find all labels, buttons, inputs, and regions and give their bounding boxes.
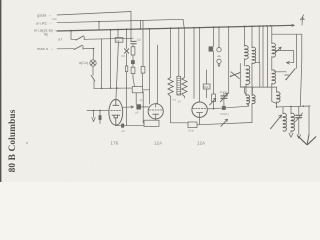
element 80 — [209, 46, 214, 51]
svg-text:12A: 12A — [197, 141, 205, 146]
capacitor C1 — [99, 115, 102, 120]
wire drop to switch1 — [70, 31, 72, 40]
svg-text:14: 14 — [178, 99, 182, 103]
scan edge line left — [0, 0, 2, 182]
tuned coil L5 variable — [282, 107, 284, 114]
resistor R11 box — [203, 84, 210, 89]
resistor R3 — [131, 47, 135, 55]
svg-text:Gmb: Gmb — [188, 129, 195, 133]
long drop to bottom right — [300, 60, 302, 106]
coil L1 box Lw — [117, 29, 119, 31]
IF coil right — [277, 92, 280, 102]
coil LC — [246, 66, 250, 85]
wire drop x259 — [258, 26, 260, 63]
tube V2 12A — [148, 104, 163, 119]
antenna symbol — [301, 17, 303, 19]
fuse X — [126, 28, 128, 30]
wire line2 to bus stub — [98, 22, 100, 30]
capacitor C7 — [131, 60, 135, 64]
wire feedback row — [197, 123, 252, 125]
wire V1 cathode — [116, 125, 121, 126]
svg-text:un.Rz →: un.Rz → — [36, 20, 52, 25]
wire V3 grid cap — [199, 27, 201, 102]
antenna riser — [301, 17, 303, 25]
arrow over coil D — [275, 47, 282, 53]
svg-text:84: 84 — [122, 54, 126, 58]
resistor R6 grid V2 — [170, 27, 172, 29]
wire V1 plate coupling — [123, 106, 134, 108]
svg-text:800: 800 — [204, 85, 209, 89]
bus main horizontal — [57, 25, 294, 31]
wire heater row — [94, 87, 132, 89]
transformer T1 — [245, 87, 247, 95]
resistor R5 — [141, 67, 145, 74]
wire lamp feed — [92, 49, 94, 60]
svg-text:Cb: Cb — [137, 38, 141, 42]
wire R1 to v2 drop — [143, 89, 150, 91]
wire plate row — [214, 106, 249, 109]
svg-text:gada →: gada → — [37, 13, 52, 18]
capacitor C2 — [121, 124, 124, 128]
wire drop x263 — [262, 26, 264, 87]
svg-text:Ko: Ko — [173, 98, 177, 102]
svg-text:a f: a f — [58, 38, 62, 42]
wire line2 drop right — [183, 19, 184, 28]
bus junction dots — [130, 25, 271, 30]
tube V3 12A — [192, 102, 207, 117]
screening frame — [240, 64, 249, 88]
svg-text:12A: 12A — [154, 141, 162, 146]
wire LD right — [274, 51, 294, 63]
svg-text:µF: µF — [135, 110, 139, 114]
wire S1 drop — [101, 39, 103, 88]
bottom right bus — [277, 105, 311, 108]
switch S1 a f — [71, 38, 76, 40]
node on line2 — [98, 21, 100, 23]
box below V2 — [144, 120, 159, 126]
resistor R8 hatched — [178, 28, 180, 76]
lamp pilot — [90, 60, 96, 66]
arrow down AVC — [93, 111, 95, 118]
resistor R4 — [131, 67, 135, 73]
wire drop x213 — [213, 27, 215, 46]
svg-text:Uia: Uia — [52, 17, 57, 21]
wire drop coil D feed — [271, 26, 273, 34]
svg-text:a(Cu): a(Cu) — [79, 61, 88, 65]
wire drop x149.5 to V2 — [149, 28, 151, 30]
wire V3 plate — [207, 108, 213, 110]
wire LD to LE — [271, 57, 273, 71]
wire drop x194 — [193, 28, 195, 99]
node bus x71 — [70, 30, 72, 32]
switch lever right — [286, 69, 295, 80]
wire C3 feed — [135, 93, 137, 104]
coil L2 zigzag — [183, 28, 185, 78]
trimmer C5 — [223, 93, 225, 95]
wire lever feed — [296, 34, 298, 68]
tuned coil L6 — [290, 107, 292, 114]
trimmer C6 — [298, 106, 300, 114]
wire long drop x110 — [110, 29, 112, 31]
wire V1 grid row — [87, 109, 109, 111]
frame bottom wire — [240, 86, 276, 88]
wire below lamp — [92, 66, 94, 75]
wire V2 grid cap — [157, 45, 159, 103]
coil LB — [251, 26, 253, 47]
svg-text:470(1): 470(1) — [220, 112, 229, 116]
svg-text:Ap: Ap — [44, 33, 48, 37]
dot mark — [26, 142, 27, 143]
svg-text:mas s →: mas s → — [37, 46, 53, 51]
resistor R9 — [212, 94, 216, 102]
wire grid cap V1 — [116, 42, 119, 100]
coil LD — [272, 43, 276, 57]
earth ground arrow — [308, 106, 310, 134]
wire below Cb — [132, 45, 134, 47]
switch S3 mains — [57, 48, 74, 50]
svg-text:80 B Columbus: 80 B Columbus — [8, 109, 18, 172]
band switch lever — [228, 27, 230, 94]
grammophone jack — [218, 27, 220, 47]
capacitor Cb — [131, 40, 136, 42]
ground under L6 — [290, 131, 292, 133]
wire to heater row — [93, 81, 95, 89]
capacitor C3 — [136, 104, 141, 109]
coil LE — [272, 70, 276, 84]
paper grain — [0, 0, 320, 182]
wire line2 — [57, 19, 183, 22]
bus end arrow — [292, 24, 294, 25]
resistor R7 box — [188, 122, 197, 128]
wire line1 drop — [130, 12, 132, 42]
resistor R1 horizontal — [132, 87, 142, 93]
top-right frame wire — [272, 34, 302, 60]
wire LE tap — [274, 71, 286, 73]
svg-text:2µ: 2µ — [140, 98, 144, 102]
resistor R10 — [222, 106, 226, 110]
wire to box R7 — [171, 122, 188, 124]
wire line2 drop mid — [140, 20, 142, 28]
wire line1 antenna input — [57, 12, 131, 16]
svg-text:4/4(1): 4/4(1) — [220, 90, 228, 94]
svg-text:µF: µF — [122, 129, 126, 133]
wire drop x267.5 — [267, 26, 269, 87]
switch S2 break — [91, 75, 95, 81]
oscillator coil LA — [244, 26, 246, 28]
wire into box — [142, 92, 145, 123]
tube V1 176 — [109, 99, 123, 125]
svg-text:176: 176 — [111, 141, 119, 146]
wire drop x143 — [142, 20, 144, 66]
resistor R2 — [125, 66, 127, 72]
